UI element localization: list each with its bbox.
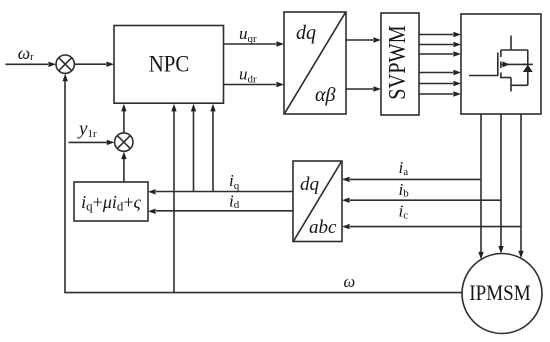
transistor MOSFET drain connection (501, 49, 528, 51)
wire u_dr (224, 84, 277, 86)
wire phase b down to IPMSM (500, 114, 502, 246)
svg-text:dq: dq (300, 174, 320, 195)
wire i_q branch up to NPC (1) (193, 111, 195, 192)
block SVPWM (381, 13, 419, 115)
svg-text:ib: ib (399, 180, 410, 200)
wire S2 up to NPC (123, 111, 125, 133)
wire i_q branch up to NPC (2) (212, 111, 214, 192)
wire i_a sense (350, 178, 481, 180)
wire box up to summing junction S2 (123, 159, 125, 182)
svg-text:id: id (229, 192, 240, 212)
svg-text:abc: abc (309, 217, 337, 238)
wire phase c down to IPMSM (520, 114, 522, 251)
wire dq/ab to SVPWM upper (346, 39, 373, 41)
diode body diode (527, 50, 529, 85)
block NPC (114, 26, 224, 104)
wire omega feedback from IPMSM to S1 (65, 81, 462, 293)
wire omega branch up to NPC (173, 111, 175, 293)
wire dq/ab to SVPWM lower (346, 88, 373, 90)
transistor MOSFET body arrow (501, 63, 528, 65)
wire omega_r input (6, 63, 49, 65)
block dq/alphabeta transform (284, 12, 346, 114)
circle IPMSM motor (462, 254, 542, 334)
wire i_q (156, 191, 293, 193)
block feedback function i_q+mu*i_d+sigma (74, 182, 148, 221)
wire phase a down to IPMSM (480, 114, 482, 252)
svg-text:IPMSM: IPMSM (469, 280, 530, 305)
svg-text:ωr: ωr (18, 43, 34, 63)
svg-text:NPC: NPC (149, 52, 190, 77)
node omega_r label (18, 43, 34, 63)
transistor MOSFET gate bar (497, 53, 499, 77)
wire i_b sense (350, 199, 501, 201)
wire S1 to NPC (74, 63, 106, 65)
wire u_qr (224, 43, 277, 45)
svg-text:αβ: αβ (315, 84, 335, 106)
arrowhead into summing junction S1 (48, 62, 56, 67)
transistor MOSFET source connection (501, 77, 511, 79)
block dq/abc transform (293, 161, 342, 242)
svg-text:iq+μid+ς: iq+μid+ς (81, 192, 141, 214)
wire i_c sense (350, 226, 521, 228)
summing junction S2 (115, 133, 133, 151)
svg-text:dq: dq (296, 22, 316, 44)
svg-text:y1r: y1r (77, 119, 97, 141)
wire i_d (156, 210, 293, 212)
svg-text:ic: ic (399, 202, 409, 222)
svg-text:udr: udr (239, 65, 257, 86)
svg-text:SVPWM: SVPWM (385, 25, 411, 100)
summing junction S1 (56, 55, 74, 73)
svg-text:iq: iq (229, 171, 240, 192)
block inverter (461, 14, 541, 114)
svg-text:ω: ω (344, 272, 356, 291)
transistor MOSFET gate lead (469, 75, 498, 77)
arrowhead into NPC left (106, 62, 114, 67)
svg-text:uqr: uqr (239, 24, 257, 45)
svg-text:ia: ia (399, 158, 409, 178)
wires SVPWM to inverter (6 gate signals) (419, 34, 453, 36)
wire y_1r input (69, 141, 107, 143)
transistor MOSFET channel bars (500, 50, 502, 57)
